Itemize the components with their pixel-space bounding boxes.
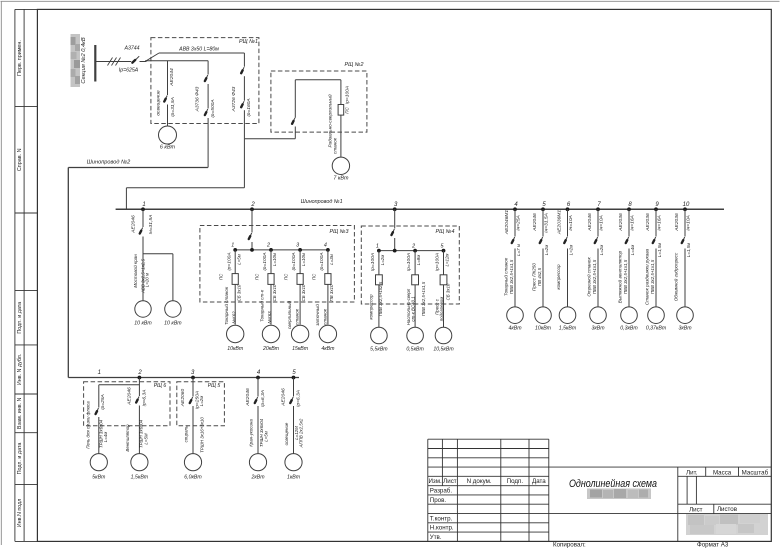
svg-text:АЕ2044: АЕ2044 (169, 68, 175, 87)
svg-text:N докум.: N докум. (467, 478, 492, 485)
tap 2 junction (250, 202, 255, 211)
svg-text:L=3м: L=3м (329, 254, 334, 264)
svg-text:РЩ №1: РЩ №1 (239, 39, 258, 45)
svg-text:0,5кВт: 0,5кВт (406, 346, 424, 352)
svg-text:Iр=100А: Iр=100А (262, 252, 268, 270)
bottom tap 2 junction (137, 370, 142, 380)
svg-text:Iр=6,3А: Iр=6,3А (260, 390, 266, 407)
svg-text:Изм.: Изм. (428, 478, 442, 485)
motor 3кВт (tap 10) (677, 307, 694, 332)
svg-text:Iр=100А: Iр=100А (226, 252, 232, 270)
svg-text:Лист: Лист (689, 506, 703, 513)
svg-text:компрессор: компрессор (369, 294, 374, 320)
svg-text:освещение: освещение (284, 422, 289, 445)
motor 10кВт (tap 5) (535, 307, 552, 332)
svg-text:Масса: Масса (713, 469, 732, 476)
busway 1 Шинопровод №1 (116, 199, 724, 209)
svg-text:АЕ2046: АЕ2046 (245, 388, 251, 407)
busway 2 horizontal run (68, 167, 208, 169)
svg-text:Масштаб: Масштаб (742, 469, 769, 476)
svg-text:10: 10 (683, 202, 690, 208)
svg-text:Iн=31,5А: Iн=31,5А (543, 213, 549, 233)
svg-text:Н.контр.: Н.контр. (430, 525, 454, 532)
svg-text:Шинопровод №2: Шинопровод №2 (87, 160, 131, 166)
svg-text:L=8м: L=8м (416, 255, 421, 265)
panel РЩ №1 box (151, 38, 259, 124)
svg-text:СБ 3х10: СБ 3х10 (272, 284, 277, 301)
bottom tap 4 junction (256, 370, 261, 380)
РЩ4 branch 2 node (411, 243, 417, 252)
svg-text:Разраб.: Разраб. (430, 487, 453, 494)
svg-text:Секция №2 0,4кВ: Секция №2 0,4кВ (81, 37, 87, 83)
motor 5кВт (90, 454, 107, 481)
label Шинопровод №2 (87, 160, 131, 166)
svg-text:Т.контр.: Т.контр. (430, 515, 453, 522)
svg-text:2: 2 (266, 243, 270, 249)
svg-text:ПВВ 3х2,5+1х2,5: ПВВ 3х2,5+1х2,5 (378, 281, 383, 316)
feeder rail B (145, 60, 208, 62)
breaker А3744 Iр=625А (119, 46, 140, 74)
svg-text:L=5м: L=5м (264, 431, 269, 441)
svg-text:ТРШН 3х16+3х10: ТРШН 3х16+3х10 (199, 417, 204, 453)
svg-text:Вентилятор: Вентилятор (125, 424, 130, 452)
svg-text:спираль: спираль (184, 425, 189, 442)
svg-text:1: 1 (376, 243, 379, 249)
breaker АЕ2046 Iн=31,5А (tap1) (130, 209, 154, 301)
svg-text:3кВт: 3кВт (591, 326, 605, 332)
svg-text:СБ 3х10: СБ 3х10 (236, 284, 241, 301)
svg-text:10 кВт: 10 кВт (134, 321, 152, 327)
РЩ4 machine labels branch 1 (369, 294, 374, 320)
breaker АЕ2046 Iн=10А (tap 7) (587, 209, 605, 306)
redacted section label blur (71, 34, 81, 87)
svg-text:АЕ2060: АЕ2060 (180, 389, 186, 408)
svg-text:L=7 м: L=7 м (516, 244, 521, 256)
feeder entry diagonal (145, 53, 159, 62)
3-phase slashes (108, 58, 121, 66)
redacted blur org cell (686, 514, 768, 535)
cable/machine labels (tap 6) (556, 264, 561, 290)
РЩ3 motor 20кВт branch 2 (262, 325, 280, 352)
svg-text:2: 2 (411, 243, 415, 249)
svg-text:Мостовой кран: Мостовой кран (132, 254, 138, 288)
svg-text:Дата: Дата (532, 478, 546, 485)
svg-text:5кВт: 5кВт (92, 475, 106, 481)
svg-text:1: 1 (231, 243, 234, 249)
svg-text:Iн=16А: Iн=16А (656, 215, 662, 231)
panel РЩ №3 box (200, 226, 355, 303)
motor 6 кВт (159, 126, 177, 151)
fuse ПС Iр=100А (338, 86, 350, 115)
РЩ3 branch 3 node (296, 243, 302, 252)
svg-text:2: 2 (137, 370, 142, 376)
svg-text:ст-к ВС40,1: ст-к ВС40,1 (411, 296, 416, 322)
wire breaker to РЩ1 (140, 61, 147, 63)
РЩ3 machine labels branch 4 (314, 304, 327, 327)
svg-text:L=4м: L=4м (103, 432, 108, 442)
РЩ3 machine labels branch 3 (286, 300, 299, 329)
busway 2 bottom run (68, 377, 299, 379)
breaker АЕ2060 Iр=250А (спираль) (180, 378, 204, 454)
tap 1 junction (141, 202, 146, 211)
svg-text:РЩ №2: РЩ №2 (345, 62, 364, 68)
tap 9 junction (654, 202, 659, 211)
svg-text:0,3кВт: 0,3кВт (620, 326, 638, 332)
svg-text:Формат А3: Формат А3 (697, 542, 729, 549)
cable/machine labels (tap 9) (645, 248, 656, 305)
РЩ4 input breaker (391, 209, 395, 250)
motor 6,0кВт (184, 454, 202, 481)
svg-text:РЩ №3: РЩ №3 (330, 229, 349, 235)
svg-text:Справ. N: Справ. N (17, 148, 23, 171)
svg-text:№К63: №К63 (267, 311, 272, 324)
РЩ4 motor 5,5кВт branch 1 (370, 327, 388, 352)
panel РЩ 5 box (177, 382, 225, 426)
svg-text:ПС: ПС (311, 273, 316, 280)
svg-text:Перв. примен.: Перв. примен. (17, 40, 23, 76)
panel РЩ №2 box (271, 62, 367, 132)
cable/machine labels (tap 10) (673, 252, 679, 301)
branch: А3736 Ф43 Iр=500А (194, 61, 216, 168)
motor 3кВт (tap 7) (590, 307, 607, 332)
motor 0,37кВт (tap 9) (646, 307, 667, 332)
svg-text:ПС: ПС (255, 273, 260, 280)
svg-text:10кВт: 10кВт (227, 346, 244, 352)
svg-text:Iр=6,3А: Iр=6,3А (141, 390, 147, 407)
cable/machine labels (tap 4) (503, 257, 515, 296)
svg-text:Iн=16А: Iн=16А (629, 215, 635, 231)
svg-text:АЕ2046: АЕ2046 (130, 215, 136, 234)
bottom tap 3 junction (191, 370, 195, 380)
РЩ3 fuse ПС branch 2 (255, 250, 278, 325)
breaker АЕ2036 Iн=16А (tap 8) (618, 209, 636, 306)
svg-text:Iн=10А: Iн=10А (685, 215, 691, 231)
РЩ4 fuse branch 2 (406, 251, 426, 328)
svg-text:3: 3 (296, 243, 299, 249)
svg-text:L=2м: L=2м (599, 245, 604, 255)
branch: А3726 Ф43 Iр=160А (231, 53, 252, 139)
svg-text:Шинопровод №1: Шинопровод №1 (301, 199, 343, 205)
motor 4кВт (tap 4) (507, 307, 524, 332)
breaker АЕ2046 Iр=6,3А (кран-укосина) (245, 378, 266, 454)
РЩ3 machine labels branch 1 (223, 286, 237, 325)
svg-text:Iр=25А: Iр=25А (100, 394, 106, 410)
labels спираль ТРШН 3х16+3х10 (184, 417, 205, 453)
svg-text:АЕ2036: АЕ2036 (618, 213, 624, 232)
svg-text:РЩ 5: РЩ 5 (208, 383, 221, 389)
РЩ4 branch 1 node (376, 243, 381, 252)
label Радиально-сверлильный станок (326, 94, 337, 154)
breaker АЕ2046 Iр=6,3А (вентилятор) (127, 378, 148, 454)
svg-text:№К62: №К62 (231, 311, 236, 324)
svg-text:АЕ2046М1: АЕ2046М1 (504, 210, 510, 235)
sheet outer border (1, 0, 780, 2)
svg-text:Iн=10А: Iн=10А (568, 215, 574, 231)
svg-text:СБ 3х10: СБ 3х10 (445, 283, 450, 300)
svg-text:сверлильный: сверлильный (286, 300, 292, 329)
svg-text:L=10м: L=10м (272, 253, 277, 266)
tap 7 junction (596, 202, 601, 211)
breaker АЕ2036М1 Iн=10А (tap 6) (556, 209, 574, 306)
svg-text:компрессор: компрессор (556, 264, 561, 290)
svg-text:L=4м: L=4м (630, 245, 635, 255)
svg-text:Iр=100А: Iр=100А (291, 252, 297, 270)
svg-text:А3726 Ф43: А3726 Ф43 (231, 86, 237, 112)
svg-text:10кВт: 10кВт (535, 326, 552, 332)
svg-text:Взам. инв. N: Взам. инв. N (17, 397, 23, 429)
svg-text:Iр=31,5А: Iр=31,5А (170, 97, 176, 117)
panel РЩ №4 box (361, 226, 459, 304)
svg-text:Утв.: Утв. (430, 534, 442, 541)
svg-text:станок: станок (333, 137, 338, 154)
svg-text:Подп.: Подп. (507, 478, 524, 485)
svg-text:ПВВ 3х2,5+1х1,5: ПВВ 3х2,5+1х1,5 (623, 259, 628, 294)
svg-text:АЕ2036: АЕ2036 (674, 213, 680, 232)
svg-text:подогревом: подогревом (439, 297, 444, 321)
РЩ3 internal bus (235, 248, 328, 252)
РЩ4 motor 10,5кВт branch 5 (433, 327, 454, 352)
breaker АЕ2046 Iр=6,3А (освещение) (281, 378, 302, 454)
svg-text:ПВВ 3х2,5+1х1,5: ПВВ 3х2,5+1х1,5 (509, 259, 514, 294)
РЩ3 branch 4 node (324, 243, 330, 252)
РЩ4 internal bus (379, 249, 444, 253)
breaker АЕ2046М1 Iн=25А (tap 4) (504, 209, 522, 306)
svg-text:1: 1 (98, 370, 101, 376)
svg-text:Инв. N дубл.: Инв. N дубл. (17, 354, 23, 386)
svg-text:L=2м: L=2м (199, 396, 204, 406)
svg-text:Iр=6,3А: Iр=6,3А (295, 390, 301, 407)
РЩ6 internal link (99, 385, 140, 408)
svg-text:Iр=160А: Iр=160А (246, 98, 252, 116)
svg-text:4: 4 (324, 243, 327, 249)
svg-text:станок: станок (295, 308, 300, 325)
margin labels (17, 40, 23, 527)
tap 6 junction (566, 202, 571, 211)
tap 8 junction (627, 202, 632, 211)
title block labels (428, 469, 768, 541)
crane feeder split (143, 254, 173, 301)
feeder rail A (159, 52, 244, 54)
breaker Iр=25А (печь) (95, 394, 106, 453)
РЩ3 branch 2 node (266, 243, 273, 252)
РЩ4 fuse branch 5 (435, 251, 451, 328)
svg-text:ПВ 3х10: ПВ 3х10 (329, 284, 334, 301)
wire 160А branch down (243, 139, 245, 188)
svg-text:Iн=10А: Iн=10А (598, 215, 604, 231)
svg-text:заточный: заточный (314, 304, 320, 327)
svg-text:АЕ2036М1: АЕ2036М1 (556, 210, 562, 235)
svg-text:ПВ 4х2,5: ПВ 4х2,5 (537, 267, 542, 286)
svg-text:6,0кВт: 6,0кВт (184, 475, 202, 481)
svg-text:Iр=100А: Iр=100А (344, 86, 350, 104)
svg-text:Копировал:: Копировал: (553, 542, 586, 549)
svg-text:АЕ2046: АЕ2046 (127, 387, 133, 406)
svg-text:10,5кВт: 10,5кВт (433, 346, 454, 352)
РЩ4 branch 5 node (441, 243, 446, 252)
РЩ4 machine labels branch 2 (406, 288, 416, 325)
svg-text:L=10м: L=10м (301, 253, 306, 266)
breaker АЕ2036 Iн=16А (tap 9) (645, 209, 663, 306)
РЩ3 motor 15кВт branch 3 (291, 325, 308, 352)
svg-text:1кВт: 1кВт (287, 475, 301, 481)
svg-text:0,37кВт: 0,37кВт (646, 326, 667, 332)
svg-text:L=1,5м: L=1,5м (657, 243, 662, 257)
svg-text:7 кВт: 7 кВт (333, 176, 349, 182)
bottom tap 5 junction (292, 370, 297, 380)
cable АВВ 3х50 L=80м (178, 46, 219, 52)
redacted blur under title (587, 489, 651, 500)
РЩ3 motor 10кВт branch 1 (227, 325, 244, 352)
motor 2кВт (249, 454, 266, 481)
cable/machine labels (tap 8) (617, 250, 629, 303)
labels Мостовой кран АВВ 3х2,5х2,5 L=20 м (132, 254, 149, 294)
busway 2 left riser (67, 168, 69, 378)
labels освещение АППВ 2х2,5х2 (284, 418, 303, 448)
svg-text:15кВт: 15кВт (292, 346, 309, 352)
svg-text:Обжимной гидропресс: Обжимной гидропресс (673, 252, 679, 301)
motor 7 кВт (332, 157, 349, 181)
svg-text:Листов: Листов (717, 506, 738, 513)
svg-text:ПС: ПС (219, 273, 224, 280)
svg-text:Пресс ПК250: Пресс ПК250 (532, 263, 537, 291)
svg-text:Радиально-сверлильный: Радиально-сверлильный (326, 94, 332, 147)
svg-text:СБ 3х10: СБ 3х10 (301, 284, 306, 301)
РЩ3 fuse ПС branch 3 (284, 250, 307, 325)
breaker АЕ2036 Iн=10А (tap 10) (674, 209, 692, 306)
svg-text:10 кВт: 10 кВт (164, 321, 182, 327)
svg-text:АЕ2046: АЕ2046 (281, 388, 287, 407)
left margin column table (15, 9, 38, 541)
svg-text:2: 2 (250, 202, 255, 208)
РЩ3 branch 1 node (231, 243, 237, 252)
svg-text:станок: станок (322, 308, 327, 325)
motor 0,3кВт (tap 8) (620, 307, 638, 332)
svg-text:Iр=100А: Iр=100А (370, 253, 376, 271)
РЩ3 machine labels branch 2 (259, 289, 273, 323)
tap 3 junction (393, 202, 398, 211)
svg-text:АЕ2036: АЕ2036 (645, 213, 651, 232)
motor 1,5кВт (131, 454, 149, 481)
svg-text:ПВВ 3х2,5+1х1,5: ПВВ 3х2,5+1х1,5 (650, 259, 655, 294)
svg-text:L=5м: L=5м (236, 254, 241, 264)
svg-text:Iр=100А: Iр=100А (319, 252, 325, 270)
wire to Шинопровод №1 (126, 188, 244, 210)
svg-text:освещение: освещение (157, 90, 162, 116)
svg-text:3кВт: 3кВт (678, 326, 692, 332)
svg-text:Лит.: Лит. (686, 469, 698, 476)
tap 10 junction (683, 202, 690, 211)
motor 10 кВт (а) (134, 301, 152, 327)
svg-text:Токарный станок: Токарный станок (223, 286, 229, 325)
svg-text:1: 1 (142, 202, 145, 208)
svg-text:Лист: Лист (443, 478, 457, 485)
РЩ3 motor 4кВт branch 4 (319, 325, 336, 352)
svg-text:Iр=500А: Iр=500А (210, 99, 216, 117)
title block grid (428, 439, 772, 541)
svg-text:6 кВт: 6 кВт (160, 145, 176, 151)
svg-text:Однолинейная схема: Однолинейная схема (569, 478, 657, 490)
svg-text:Токарный станок: Токарный станок (503, 257, 509, 296)
svg-text:Iр=625А: Iр=625А (119, 68, 139, 74)
РЩ4 motor 0,5кВт branch 2 (406, 327, 424, 352)
svg-text:L=1,5м: L=1,5м (686, 243, 691, 257)
svg-text:РЩ 6: РЩ 6 (154, 383, 167, 389)
svg-text:ПВВ 3х2,5+1х1,5: ПВВ 3х2,5+1х1,5 (421, 281, 426, 316)
source busbar (94, 45, 96, 82)
РЩ4 fuse branch 1 (370, 251, 385, 328)
svg-text:L=2м: L=2м (568, 245, 573, 255)
РЩ2 входной выключатель (292, 80, 296, 139)
svg-text:Iр=100А: Iр=100А (435, 253, 441, 271)
РЩ2 internal wires (295, 80, 341, 105)
svg-text:L=12м: L=12м (445, 254, 450, 267)
motor 10 кВт (б) (164, 301, 182, 327)
svg-text:ПВВ 3х2,5+1х1,5: ПВВ 3х2,5+1х1,5 (592, 259, 597, 294)
svg-text:L=2м: L=2м (380, 255, 385, 265)
cable/machine labels (tap 7) (586, 257, 598, 297)
svg-text:4кВт: 4кВт (508, 326, 522, 332)
svg-text:А3736 Ф43: А3736 Ф43 (194, 86, 200, 112)
svg-text:АЕ2046: АЕ2046 (532, 213, 538, 232)
svg-text:Печь для сушки флюса: Печь для сушки флюса (86, 401, 91, 449)
svg-text:2кВт: 2кВт (250, 475, 265, 481)
svg-text:Iн=25А: Iн=25А (515, 215, 521, 231)
tap 4 junction (513, 202, 518, 211)
РЩ3 input breaker (248, 209, 252, 250)
svg-text:Вытяжной вентилятор: Вытяжной вентилятор (617, 250, 623, 303)
svg-text:Отрезной станок: Отрезной станок (586, 257, 592, 297)
svg-text:Станок раздвижки рукава: Станок раздвижки рукава (645, 248, 650, 305)
cable/machine labels (tap 5) (532, 263, 543, 291)
svg-text:РЩ №4: РЩ №4 (436, 229, 455, 235)
labels Кран-укосина (248, 418, 268, 447)
svg-text:ПС: ПС (284, 273, 289, 280)
wire 160А branch to РЩ2 (244, 138, 295, 140)
svg-text:20кВт: 20кВт (262, 346, 280, 352)
svg-text:1,5кВт: 1,5кВт (559, 326, 577, 332)
labels Вентилятор (125, 419, 148, 451)
breaker АЕ2046 Iн=31,5А (tap 5) (532, 209, 550, 306)
svg-text:ПС: ПС (344, 106, 349, 113)
svg-text:Инв.N подл: Инв.N подл (17, 499, 23, 528)
РЩ3 fuse ПС branch 4 (311, 250, 334, 325)
svg-text:АППВ 2х2,5х2: АППВ 2х2,5х2 (298, 418, 303, 448)
labels Печь для сушки флюса (86, 401, 108, 449)
tap 5 junction (541, 202, 546, 211)
svg-text:L=2м: L=2м (544, 245, 549, 255)
svg-text:4кВт: 4кВт (321, 346, 335, 352)
svg-text:АЕ2046: АЕ2046 (587, 213, 593, 232)
svg-text:L=5М: L=5М (143, 433, 148, 444)
svg-text:АВВ 3х50 L=80м: АВВ 3х50 L=80м (178, 46, 219, 52)
svg-text:Подп. и дата: Подп. и дата (17, 443, 23, 475)
svg-text:Подп. и дата: Подп. и дата (17, 302, 23, 334)
svg-text:Кран-укосина: Кран-укосина (248, 419, 253, 447)
svg-text:Токарный ст-к: Токарный ст-к (259, 289, 265, 322)
motor 1,5кВт (tap 6) (559, 307, 577, 332)
РЩ4 machine labels branch 5 (434, 297, 444, 321)
РЩ3 fuse ПС branch 1 (219, 250, 242, 325)
wire fuse to motor (340, 115, 342, 157)
svg-text:А3744: А3744 (123, 46, 139, 52)
panel РЩ 6 box (84, 382, 170, 426)
svg-text:Iн=31,5А: Iн=31,5А (148, 215, 154, 235)
motor 1кВт (285, 454, 302, 481)
svg-text:Iр=100А: Iр=100А (406, 253, 412, 271)
node: Секция №2 0,4кВ (81, 37, 87, 83)
svg-text:Пров.: Пров. (430, 497, 447, 504)
svg-text:L=20 м: L=20 м (144, 273, 149, 287)
